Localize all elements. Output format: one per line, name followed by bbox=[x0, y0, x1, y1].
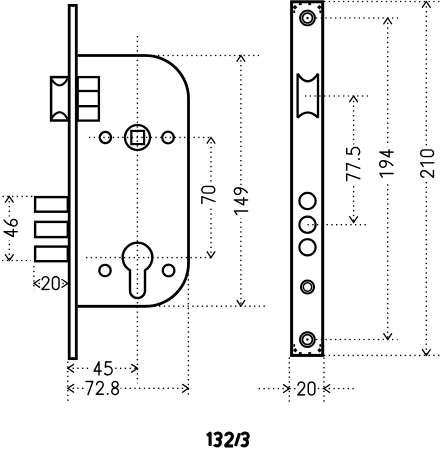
label 194 (rotated) bbox=[380, 150, 393, 177]
euro cylinder profile hole bbox=[123, 243, 153, 298]
dim 45 line bbox=[68, 367, 138, 369]
case right edge extension line bbox=[187, 265, 189, 396]
arrow down dim70 bbox=[207, 252, 215, 258]
fixing hole left of cylinder bbox=[99, 265, 110, 276]
dim 46 line bbox=[8, 196, 10, 260]
arrow down dim77.5 bbox=[350, 217, 358, 223]
label 149 (rotated) bbox=[234, 188, 247, 215]
dim 20 right leader right bbox=[324, 388, 357, 390]
label 77.5 (rotated) bbox=[347, 147, 360, 180]
text mask 210 bbox=[420, 146, 436, 182]
fixing hole right of follower bbox=[162, 132, 174, 144]
text mask 72.8 bbox=[84, 381, 121, 397]
plate hole 3 bbox=[299, 239, 315, 255]
top screw centerline bbox=[316, 17, 401, 19]
arrow up dim77.5 bbox=[350, 96, 358, 102]
latch bolt front top bevel arc bbox=[298, 74, 318, 82]
bottom fixing screw hole outer bbox=[300, 332, 315, 347]
deadbolt left face extension line bbox=[33, 266, 35, 290]
arrow up dim194 bbox=[384, 18, 392, 24]
label 70 (rotated) bbox=[202, 186, 215, 203]
dim 210 line bbox=[425, 2, 427, 356]
plate left edge extension (dim 20 right) bbox=[288, 358, 290, 403]
arrow down dim149 bbox=[237, 300, 245, 306]
text mask 20R bbox=[296, 381, 317, 398]
arrow left-pointing dim20R right bbox=[324, 385, 330, 393]
faceplate left extension line bbox=[67, 362, 69, 402]
label 72.8 bbox=[86, 381, 118, 394]
arrow up dim70 bbox=[207, 137, 215, 143]
latch bolt front view right edge bbox=[317, 74, 319, 118]
faceplate (edge view, left side view) bbox=[69, 5, 76, 358]
label 46 (rotated) bbox=[4, 219, 17, 236]
label 45 bbox=[94, 362, 112, 375]
plate corner diamond bottom-right bbox=[317, 348, 322, 353]
arrow down dim46 bbox=[5, 255, 13, 261]
top fixing screw hole inner bbox=[303, 13, 313, 23]
plate top edge extension line bbox=[324, 1, 442, 3]
deadbolt top extension line bbox=[3, 195, 34, 197]
plate corner diamond top-right bbox=[317, 5, 322, 10]
arrow up dim210 bbox=[422, 2, 430, 8]
fixing hole left of follower bbox=[100, 132, 111, 143]
plate corner diamond top-left bbox=[293, 5, 298, 10]
text mask 149 bbox=[234, 185, 250, 218]
countersunk hole inner bbox=[303, 283, 311, 291]
top edge tooth 2 bbox=[308, 3, 311, 5]
spindle follower circle bbox=[125, 125, 150, 150]
arrow right-pointing dim20R left bbox=[284, 385, 290, 393]
latch bolt body (inside case) bbox=[78, 77, 99, 121]
top screw center dot bbox=[306, 17, 308, 19]
text mask 70 bbox=[202, 184, 218, 207]
dim 20 right leader left bbox=[259, 388, 290, 390]
dim 20 right middle line bbox=[289, 388, 324, 390]
dim 77.5 line bbox=[353, 96, 355, 223]
arrow right dim20L bbox=[62, 280, 68, 288]
bottom screw center dot bbox=[306, 338, 308, 340]
dim 149 line bbox=[240, 56, 242, 307]
arrow left dim45 bbox=[68, 364, 74, 372]
deadbolt bottom extension line bbox=[2, 260, 31, 262]
spindle square hole bbox=[131, 131, 144, 144]
latch head bottom bevel arc bbox=[51, 112, 67, 119]
follower horizontal centerline bbox=[89, 136, 211, 138]
case top edge extension line bbox=[149, 55, 263, 57]
plate corner diamond bottom-left bbox=[293, 348, 298, 353]
bottom edge tooth 2 bbox=[308, 352, 311, 354]
arrow left dim72.8 bbox=[68, 384, 74, 392]
latch body divider 1 bbox=[78, 90, 99, 92]
deadbolt slab 1 bbox=[35, 197, 68, 212]
left edge tooth top bbox=[293, 10, 295, 13]
top fixing screw hole outer bbox=[300, 11, 315, 26]
arrow up dim149 bbox=[237, 56, 245, 62]
text mask 20L bbox=[41, 276, 60, 291]
latch body divider 2 bbox=[78, 105, 99, 107]
label 210 (rotated) bbox=[421, 150, 434, 177]
right edge tooth bottom bbox=[319, 344, 321, 347]
cylinder horizontal centerline bbox=[86, 257, 211, 259]
right edge tooth top bbox=[319, 10, 321, 13]
arrow down dim210 bbox=[422, 350, 430, 356]
arrow left dim20L bbox=[34, 280, 40, 288]
arrow right dim45 bbox=[132, 364, 138, 372]
fixing hole right of cylinder bbox=[163, 265, 175, 277]
vertical centerline through follower and cylinder bbox=[136, 36, 138, 383]
plate bottom edge extension line bbox=[324, 354, 442, 356]
text mask 194 bbox=[379, 147, 395, 182]
bottom screw centerline bbox=[316, 339, 398, 341]
plate hole 2 bbox=[299, 217, 315, 233]
case bottom edge extension line bbox=[140, 305, 267, 307]
label 20 left bbox=[42, 277, 59, 290]
latch head top bevel arc bbox=[51, 79, 67, 86]
latch bolt front bottom bevel arc bbox=[298, 113, 318, 118]
dim 70 line bbox=[210, 137, 212, 257]
arrow right dim72.8 bbox=[183, 384, 189, 392]
text mask 77.5 bbox=[346, 145, 362, 185]
label 20 right bbox=[298, 382, 315, 395]
arrow down dim194 bbox=[384, 334, 392, 340]
text mask 45 bbox=[91, 361, 114, 377]
dim 20 left line bbox=[34, 282, 68, 284]
forend plate outline (front view) bbox=[292, 2, 323, 356]
latch bolt head (left of faceplate) bbox=[51, 77, 69, 120]
deadbolt slab 2 bbox=[35, 222, 68, 237]
latch bolt front view left edge bbox=[296, 74, 298, 118]
arrow up dim46 bbox=[5, 196, 13, 202]
bottom edge tooth 1 bbox=[299, 352, 302, 354]
countersunk hole outer bbox=[301, 281, 314, 294]
latch front centerline bbox=[305, 95, 369, 97]
model label 132/3 bbox=[207, 433, 248, 446]
bottom fixing screw hole inner bbox=[302, 335, 312, 345]
dim 194 line bbox=[387, 18, 389, 340]
plate right edge extension (dim 20 right) bbox=[323, 358, 325, 403]
left edge tooth bottom bbox=[293, 344, 295, 347]
dim 72.8 line bbox=[68, 387, 189, 389]
plate hole 1 bbox=[299, 193, 315, 209]
lock case body outline bbox=[78, 56, 189, 307]
plate hole 2 centerline bbox=[308, 224, 369, 226]
text mask 46 bbox=[2, 217, 19, 241]
deadbolt slab 3 bbox=[35, 247, 68, 262]
top edge tooth 1 bbox=[299, 3, 302, 5]
